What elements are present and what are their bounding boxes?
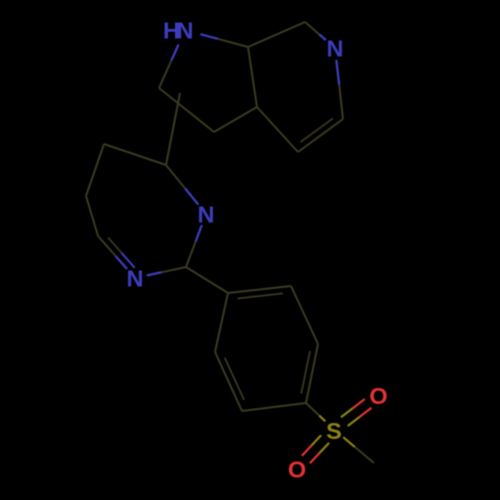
- svg-text:S: S: [326, 418, 342, 444]
- bond C4p-C5p (diazepine): [86, 196, 98, 236]
- bond C2ar-C3ar (benzene): [291, 286, 318, 344]
- bond C7-N6 (pyridine): [305, 22, 326, 40]
- bond N1p-C2p (diazepine): [186, 225, 202, 267]
- double bond N3p=C4p (diazepine): [98, 236, 135, 269]
- bond S-CH3 (methyl): [343, 437, 374, 463]
- bond N1-C2 (pyrrole): [159, 45, 179, 88]
- atom label S sulfonyl sulfur: [326, 418, 342, 444]
- bond C4ar-C5ar (benzene): [242, 403, 306, 411]
- bond C3-C3a (pyrrole): [214, 107, 257, 132]
- svg-text:N: N: [198, 202, 215, 228]
- atom label N3p diazepine N: [127, 266, 144, 292]
- double bond S=O1: [341, 399, 372, 426]
- bond C6p-C7w (diazepine): [104, 144, 166, 165]
- double bond C5ar=C6ar (benzene): [215, 352, 244, 411]
- svg-text:N: N: [127, 266, 144, 292]
- atom label N1 pyrrole NH (HN): [163, 17, 193, 43]
- bond C3-C7w linker: [166, 93, 180, 165]
- bond C2-C3 (pyrrole): [159, 88, 214, 132]
- bond C3a-C7a (ring fusion): [248, 47, 257, 107]
- svg-text:N: N: [177, 17, 194, 43]
- bond C7a-C7 (pyridine): [248, 22, 305, 47]
- atom label N1p diazepine N: [198, 202, 215, 228]
- bond C7w-N1p (diazepine): [166, 165, 198, 205]
- double bond S=O2: [302, 435, 329, 463]
- bond C6ar-C1ar (benzene): [215, 293, 228, 352]
- atom label O2 sulfonyl oxygen: [288, 457, 306, 483]
- atom label N6 pyridine N: [327, 36, 344, 62]
- svg-text:O: O: [369, 383, 387, 409]
- double bond C1ar=C2ar (benzene): [228, 286, 291, 299]
- bond N6-C5 (pyridine): [336, 60, 343, 119]
- bond C2p-N3p (diazepine): [147, 267, 186, 276]
- bond C2p-C1ar (to phenyl): [186, 267, 228, 293]
- svg-text:N: N: [327, 36, 344, 62]
- atom label O1 sulfonyl oxygen: [369, 383, 387, 409]
- double bond C5=C4 (pyridine): [298, 118, 343, 152]
- bond N1-C7a (pyrrole): [200, 34, 248, 47]
- bond C4ar-S (sulfonyl): [306, 403, 325, 421]
- bond C4-C3a (pyridine): [257, 107, 298, 152]
- double bond C3ar=C4ar (benzene): [301, 344, 318, 403]
- svg-text:O: O: [288, 457, 306, 483]
- bond C5p-C6p (diazepine): [86, 144, 104, 196]
